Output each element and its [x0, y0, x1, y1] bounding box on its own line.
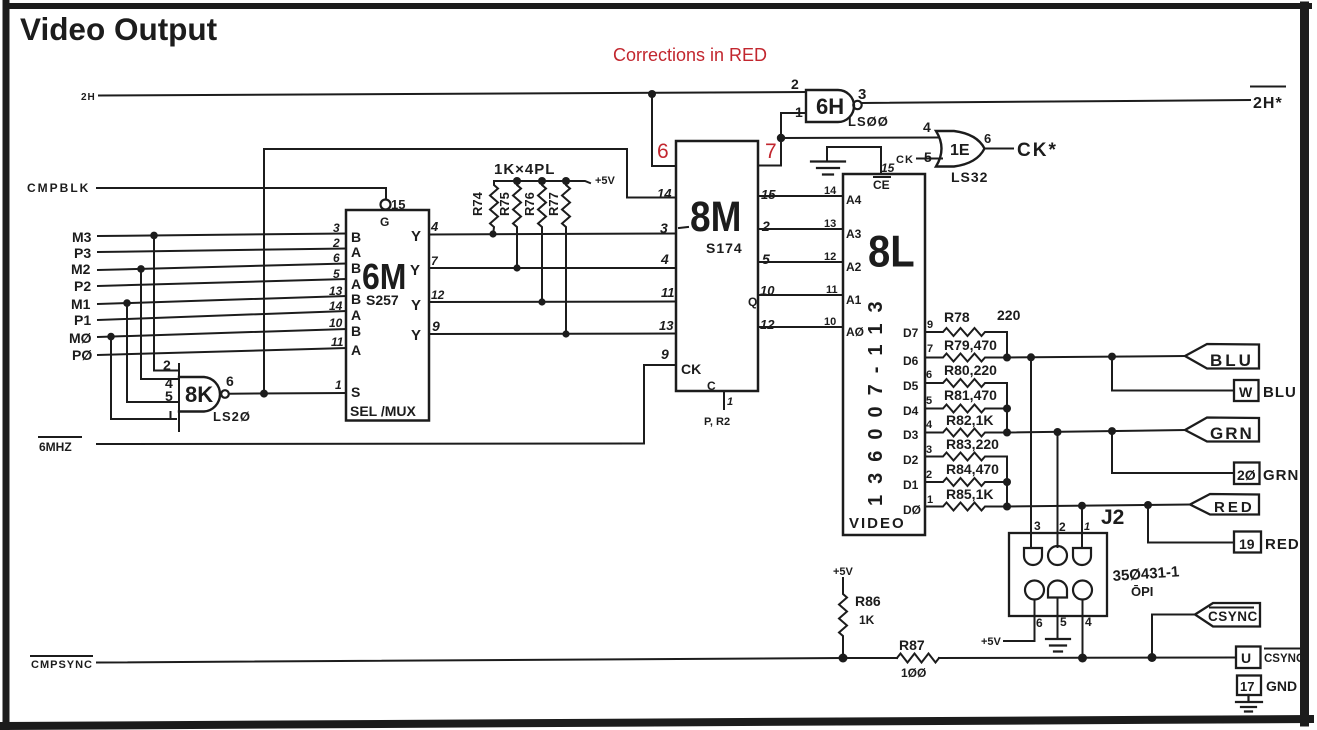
J2 pin 4 contact (circle)	[1073, 581, 1092, 600]
border frame right	[1300, 6, 1309, 722]
resistor R84 on D1	[925, 478, 1007, 486]
svg-text:A: A	[351, 276, 361, 292]
wire P1 to 6M pin 14	[98, 311, 346, 320]
svg-text:12: 12	[760, 317, 775, 332]
svg-text:12: 12	[824, 251, 836, 263]
svg-text:+5V: +5V	[833, 566, 854, 578]
resistor R78 on D7	[925, 328, 1007, 358]
svg-text:5: 5	[333, 267, 340, 281]
svg-text:5: 5	[165, 388, 173, 404]
svg-text:8M: 8M	[690, 194, 741, 241]
wire BLU net line	[1007, 356, 1185, 358]
svg-text:CMPBLK: CMPBLK	[27, 181, 90, 195]
svg-text:6: 6	[926, 369, 932, 381]
tag BLU	[1185, 344, 1259, 369]
net label 2H* with overline	[1251, 86, 1285, 88]
svg-text:7: 7	[431, 254, 439, 268]
svg-text:D7: D7	[903, 326, 919, 340]
svg-text:LS2Ø: LS2Ø	[213, 409, 251, 424]
svg-text:4: 4	[1085, 615, 1092, 629]
chip 6M (S257) body	[346, 210, 429, 421]
gate 1E (LS32 OR)	[936, 131, 985, 167]
svg-text:2Ø: 2Ø	[1237, 467, 1256, 483]
wire 2H to gate 6H pin 2	[99, 92, 806, 96]
wire CK into 1E pin 5	[917, 158, 942, 160]
svg-text:2: 2	[332, 236, 340, 250]
svg-text:Q: Q	[748, 295, 757, 309]
svg-text:B: B	[351, 323, 361, 339]
net label CMPSYNC with overline	[31, 655, 92, 657]
wire down to 20 GRN box	[1112, 431, 1234, 473]
wire CMPSYNC line (left of R87)	[97, 658, 897, 663]
svg-text:CSYNC: CSYNC	[1208, 609, 1258, 624]
svg-text:9: 9	[432, 318, 440, 334]
junction CSYNC tag branch	[1148, 653, 1157, 662]
svg-text:U: U	[1241, 650, 1251, 666]
svg-text:R82,1K: R82,1K	[946, 412, 993, 428]
+5V bus for resistor pack	[494, 181, 590, 183]
svg-text:MØ: MØ	[69, 330, 92, 346]
svg-text:R79,470: R79,470	[944, 337, 997, 353]
svg-text:2: 2	[163, 357, 171, 373]
svg-text:R87: R87	[899, 637, 925, 653]
junction BLU to W BLU	[1108, 353, 1116, 361]
tag RED	[1190, 494, 1259, 515]
svg-text:10: 10	[329, 316, 343, 330]
resistor R81 on D4	[925, 405, 1007, 413]
svg-text:PØ: PØ	[72, 347, 92, 363]
svg-text:10: 10	[824, 316, 836, 328]
svg-text:CK: CK	[681, 361, 701, 377]
resistor R86	[839, 578, 847, 659]
svg-text:J2: J2	[1101, 506, 1124, 529]
border frame top	[8, 3, 1309, 9]
svg-text:1E: 1E	[950, 142, 970, 159]
svg-text:CK*: CK*	[1017, 140, 1058, 161]
svg-text:11: 11	[331, 335, 344, 349]
wire 8M pin 2 to 8L A3	[758, 228, 843, 230]
svg-text:2: 2	[761, 218, 770, 234]
svg-text:R83,220: R83,220	[946, 436, 999, 452]
svg-text:7: 7	[927, 343, 933, 355]
bubble of 6H	[853, 101, 861, 109]
svg-text:+5V: +5V	[595, 175, 616, 187]
junction node 7	[777, 134, 785, 142]
svg-text:3: 3	[858, 86, 866, 103]
junction J2 pin 4 on CMPSYNC line	[1078, 654, 1087, 663]
svg-text:M2: M2	[71, 261, 91, 277]
chip 8L (136007-113) body	[843, 174, 925, 535]
junction GRN node	[1003, 429, 1011, 437]
wire 8M top-right pin to node 7	[758, 138, 781, 166]
J2 pin 5 contact (D up)	[1048, 581, 1067, 598]
gate 8K (LS20 NAND) left edge	[178, 364, 180, 431]
wire BLU down to J2 pin 3	[1030, 357, 1032, 548]
resistor R77	[562, 181, 570, 332]
junction R76 top	[538, 177, 546, 185]
wire M1 to 6M pin 13	[98, 296, 346, 304]
wire 8M pin 5 to 8L A2	[758, 261, 843, 263]
svg-text:11: 11	[826, 284, 838, 296]
J2 pin 1 contact (D shape)	[1073, 548, 1091, 565]
svg-text:P1: P1	[74, 312, 91, 328]
wire down to W BLU box	[1112, 357, 1234, 391]
svg-text:A4: A4	[846, 193, 862, 207]
svg-text:1: 1	[1084, 521, 1090, 533]
svg-text:13: 13	[329, 284, 343, 298]
svg-text:1: 1	[335, 378, 342, 392]
8L CE label with overline	[874, 176, 890, 178]
svg-text:ŌPI: ŌPI	[1131, 584, 1153, 599]
svg-text:P2: P2	[74, 278, 91, 294]
svg-text:GRN: GRN	[1263, 467, 1299, 484]
svg-text:D4: D4	[903, 404, 919, 418]
svg-text:14: 14	[329, 299, 343, 313]
resistor R80 on D5	[925, 379, 1007, 433]
wire RED net line	[1007, 505, 1190, 507]
gate 6H (LS00 NAND)	[806, 90, 854, 122]
svg-text:4: 4	[923, 119, 931, 135]
svg-text:1: 1	[727, 396, 733, 408]
svg-text:6: 6	[226, 373, 234, 389]
box U CSYNC	[1236, 647, 1261, 669]
wire 1E output to CK*	[984, 148, 1013, 150]
junction R77 bottom on Y3 line	[562, 330, 569, 337]
8M bottom pin 1 wire	[723, 391, 725, 409]
svg-text:3: 3	[333, 221, 340, 235]
6M enable bubble pin 15	[381, 200, 391, 210]
junction R76 bottom on Y2 line	[538, 298, 545, 305]
box 20 GRN	[1234, 463, 1260, 485]
svg-text:17: 17	[1240, 679, 1254, 694]
svg-text:CE: CE	[873, 178, 890, 192]
svg-text:1K: 1K	[859, 613, 875, 627]
svg-text:9: 9	[927, 319, 933, 331]
svg-text:A1: A1	[846, 293, 862, 307]
svg-text:6: 6	[984, 131, 991, 146]
wire ground to 8L pin 15 CE	[827, 147, 881, 174]
svg-text:M1: M1	[71, 296, 91, 312]
resistor R82 on D3 (GRN line)	[925, 429, 1007, 437]
wire M3 junction down to 8K pin 2	[154, 235, 179, 370]
svg-text:B: B	[351, 260, 361, 276]
svg-text:13: 13	[659, 318, 674, 333]
svg-text:Y: Y	[411, 297, 421, 314]
svg-text:R76: R76	[522, 192, 537, 216]
junction on M3 line	[150, 232, 158, 240]
svg-text:GRN: GRN	[1210, 424, 1254, 443]
svg-text:2: 2	[791, 76, 799, 92]
wire M0 junction down to 8K bottom input	[111, 337, 176, 419]
svg-text:GND: GND	[1266, 678, 1297, 694]
tag GRN	[1185, 418, 1259, 442]
svg-text:1: 1	[927, 494, 933, 506]
svg-text:12: 12	[431, 288, 445, 302]
svg-text:+5V: +5V	[981, 636, 1002, 648]
wire 6MHZ to 8M pin 9 CK	[97, 365, 676, 444]
svg-text:S174: S174	[706, 240, 743, 256]
svg-text:5: 5	[1060, 615, 1067, 629]
svg-text:R85,1K: R85,1K	[946, 486, 993, 502]
svg-text:6: 6	[333, 251, 340, 265]
svg-text:CMPSYNC: CMPSYNC	[31, 659, 93, 671]
wire P0 to 6M pin 11	[98, 348, 346, 355]
junction on M2 line	[137, 265, 145, 273]
svg-text:D3: D3	[903, 428, 919, 442]
svg-text:1ØØ: 1ØØ	[901, 666, 926, 680]
svg-text:5: 5	[926, 395, 932, 407]
svg-text:CSYNC: CSYNC	[1264, 653, 1304, 665]
net label 6MHZ with overline	[39, 436, 81, 438]
junction D2+D1	[1003, 478, 1011, 486]
resistor R79 on D6 (BLU line)	[925, 354, 1007, 362]
box W BLU	[1234, 380, 1259, 401]
svg-text:3: 3	[926, 444, 932, 456]
svg-text:6: 6	[657, 140, 669, 163]
box 19 RED	[1234, 532, 1261, 553]
svg-text:R75: R75	[497, 192, 512, 216]
svg-text:136007-113: 136007-113	[865, 290, 887, 506]
svg-text:2H: 2H	[81, 92, 96, 103]
stray dash before 8M	[679, 227, 688, 228]
border frame bottom	[2, 719, 1310, 726]
svg-text:Video Output: Video Output	[20, 11, 218, 47]
svg-text:Y: Y	[411, 327, 421, 344]
svg-text:15: 15	[391, 197, 405, 212]
svg-text:R80,220: R80,220	[944, 362, 997, 378]
resistor R75	[513, 181, 521, 266]
svg-text:A3: A3	[846, 227, 862, 241]
junction on M0 line	[107, 333, 115, 341]
wire GRN down to J2 pin 2	[1057, 432, 1059, 547]
wire junction down to 8M top-left pin	[652, 94, 676, 166]
junction D7+D6	[1003, 354, 1011, 362]
gate 8K body	[179, 377, 220, 412]
resistor R76	[538, 181, 546, 299]
svg-text:P3: P3	[74, 245, 91, 261]
wire 6M Y3 to 8M pin 13	[429, 333, 676, 336]
tag CSYNC	[1195, 603, 1260, 627]
J2 pin 3 contact (D shape)	[1024, 548, 1042, 565]
svg-text:9: 9	[661, 346, 669, 362]
svg-text:220: 220	[997, 307, 1021, 323]
wire J2 pin 5 to ground	[1057, 600, 1059, 639]
ground symbol near 1E	[811, 162, 845, 175]
wire CMPBLK to 6M pin 15 G	[97, 188, 386, 200]
svg-text:4: 4	[660, 251, 669, 267]
junction R74 bottom on Y0 line	[489, 230, 496, 237]
junction RED node	[1003, 503, 1011, 511]
svg-text:4: 4	[926, 419, 933, 431]
svg-text:11: 11	[661, 285, 675, 300]
wire node 7 to gate 1E input 4	[781, 137, 939, 140]
wire M2 to 6M pin 6	[98, 264, 346, 271]
wire J2 pin 4 down to CMPSYNC line	[1082, 600, 1084, 659]
svg-text:S: S	[351, 384, 360, 400]
svg-text:AØ: AØ	[846, 325, 864, 339]
svg-text:3: 3	[1034, 519, 1041, 533]
wire 6H output to 2H*	[862, 100, 1250, 103]
wire 6M Y1 to 8M pin 4	[429, 267, 676, 269]
svg-text:D2: D2	[903, 453, 919, 467]
svg-text:8K: 8K	[185, 382, 213, 407]
svg-text:8L: 8L	[868, 226, 915, 276]
resistor R83 on D2	[925, 453, 1007, 507]
wire 6M Y0 to 8M pin 3	[429, 234, 676, 235]
svg-text:B: B	[351, 291, 361, 307]
svg-text:D5: D5	[903, 379, 919, 393]
ground symbol under J2 pin 5	[1046, 639, 1070, 652]
svg-text:4: 4	[430, 219, 439, 234]
svg-text:LS32: LS32	[951, 169, 988, 185]
junction on M1 line	[123, 299, 131, 307]
wire 8K output junction up and over to 8M pin 14	[264, 149, 676, 394]
svg-text:A: A	[351, 244, 361, 260]
svg-text:14: 14	[824, 185, 837, 197]
junction on 8K output	[260, 390, 268, 398]
svg-text:6H: 6H	[816, 94, 844, 119]
wire up to CSYNC tag	[1152, 615, 1195, 658]
svg-text:2: 2	[926, 469, 932, 481]
svg-text:15: 15	[761, 187, 776, 202]
wire P2 to 6M pin 5	[98, 279, 346, 286]
svg-text:R74: R74	[470, 191, 485, 216]
svg-text:VIDEO: VIDEO	[849, 515, 906, 532]
wire M2 junction down to 8K pin 4	[141, 269, 179, 379]
svg-text:A2: A2	[846, 260, 862, 274]
wire 6H pin1 to node 7 junction	[781, 113, 806, 138]
svg-text:R78: R78	[944, 309, 970, 325]
wire 8M pin 12 to 8L A0	[758, 326, 843, 328]
chip 8M (S174) body	[676, 141, 758, 391]
svg-text:35Ø431-1: 35Ø431-1	[1112, 563, 1180, 585]
junction D5+D4	[1003, 405, 1011, 413]
svg-text:BLU: BLU	[1263, 384, 1297, 401]
junction R77 top	[562, 177, 570, 185]
svg-text:D1: D1	[903, 478, 919, 492]
svg-text:1K×4PL: 1K×4PL	[494, 161, 555, 178]
svg-text:M3: M3	[72, 229, 92, 245]
wire 8K output to 6M pin 1 S	[229, 392, 346, 395]
junction R75 top	[513, 177, 521, 185]
svg-text:A: A	[351, 307, 361, 323]
svg-text:2H*: 2H*	[1253, 95, 1283, 112]
svg-text:Corrections in RED: Corrections in RED	[613, 45, 767, 65]
junction GRN to 20 GRN	[1108, 427, 1116, 435]
resistor R85 on D0 (RED line)	[925, 503, 1007, 511]
wire 8M pin 15 to 8L A4	[758, 195, 843, 197]
svg-text:5: 5	[924, 149, 932, 165]
svg-text:Y: Y	[411, 228, 421, 245]
J2 pin 6 contact (circle)	[1025, 581, 1044, 600]
svg-text:R84,470: R84,470	[946, 461, 999, 477]
svg-text:Y: Y	[410, 262, 420, 279]
svg-text:14: 14	[657, 186, 672, 201]
junction RED to 19 RED	[1144, 501, 1152, 509]
svg-text:2: 2	[1059, 520, 1066, 534]
svg-text:R77: R77	[546, 192, 561, 216]
svg-text:6: 6	[1036, 616, 1043, 630]
svg-text:RED: RED	[1214, 499, 1255, 516]
svg-text:SEL /MUX: SEL /MUX	[350, 403, 417, 419]
wire RED down to J2 pin 1	[1081, 506, 1083, 548]
svg-text:BLU: BLU	[1210, 351, 1254, 370]
wire J2 pin 6 to +5V	[1004, 600, 1035, 642]
wire down to 19 RED box	[1148, 505, 1234, 543]
svg-text:CK: CK	[896, 154, 914, 166]
junction BLU to J2 pin 3	[1027, 353, 1035, 361]
svg-text:S257: S257	[366, 292, 399, 308]
wire GRN net line	[1007, 430, 1185, 433]
svg-text:DØ: DØ	[903, 503, 921, 517]
svg-text:19: 19	[1239, 536, 1255, 552]
svg-text:5: 5	[762, 251, 770, 267]
junction GRN to J2 pin 2	[1054, 428, 1062, 436]
svg-text:G: G	[380, 215, 389, 229]
svg-text:3: 3	[660, 220, 668, 236]
wire 8M pin 10 to 8L A1	[758, 294, 843, 296]
J2 pin 2 contact (circle)	[1048, 546, 1067, 565]
wire M0 to 6M pin 10	[98, 329, 346, 337]
svg-text:B: B	[351, 229, 361, 245]
svg-text:R81,470: R81,470	[944, 387, 997, 403]
svg-text:13: 13	[824, 218, 836, 230]
svg-text:LSØØ: LSØØ	[848, 114, 889, 129]
wire M3 to 6M pin 3	[98, 234, 346, 237]
ground symbol under 17 GND	[1236, 695, 1262, 712]
resistor R74	[490, 181, 498, 236]
wire M1 junction down to 8K pin 5	[127, 303, 179, 402]
junction R75 bottom on Y1 line	[513, 264, 520, 271]
svg-text:C: C	[707, 379, 716, 393]
junction on 2H wire	[648, 90, 656, 98]
wire 6M Y2 to 8M pin 11	[429, 301, 676, 304]
box 17 GND	[1237, 676, 1261, 696]
svg-text:A: A	[351, 342, 361, 358]
svg-text:P, R2: P, R2	[704, 416, 730, 428]
svg-text:D6: D6	[903, 354, 919, 368]
resistor R87	[897, 654, 939, 663]
svg-text:W: W	[1239, 384, 1253, 400]
border frame left	[3, 3, 10, 730]
wire P3 to 6M pin 2	[98, 249, 346, 253]
connector J2 box	[1009, 533, 1107, 616]
junction RED to J2 pin 1	[1078, 502, 1086, 510]
svg-text:RED: RED	[1265, 536, 1300, 553]
bubble of 8K	[221, 390, 229, 398]
svg-text:7: 7	[765, 140, 777, 163]
svg-text:6MHZ: 6MHZ	[39, 440, 72, 454]
svg-text:R86: R86	[855, 593, 881, 609]
junction R86 bottom	[839, 654, 848, 663]
wire CMPSYNC line (right of R87)	[939, 657, 1236, 660]
